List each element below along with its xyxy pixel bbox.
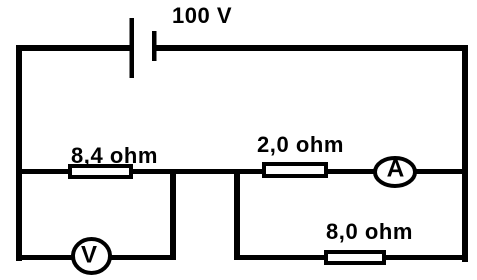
svg-text:8,0 ohm: 8,0 ohm — [326, 219, 413, 244]
svg-text:A: A — [387, 156, 405, 183]
svg-text:V: V — [81, 242, 97, 269]
svg-text:2,0 ohm: 2,0 ohm — [257, 132, 344, 157]
svg-text:100 V: 100 V — [172, 3, 232, 28]
svg-text:8,4 ohm: 8,4 ohm — [71, 143, 158, 168]
